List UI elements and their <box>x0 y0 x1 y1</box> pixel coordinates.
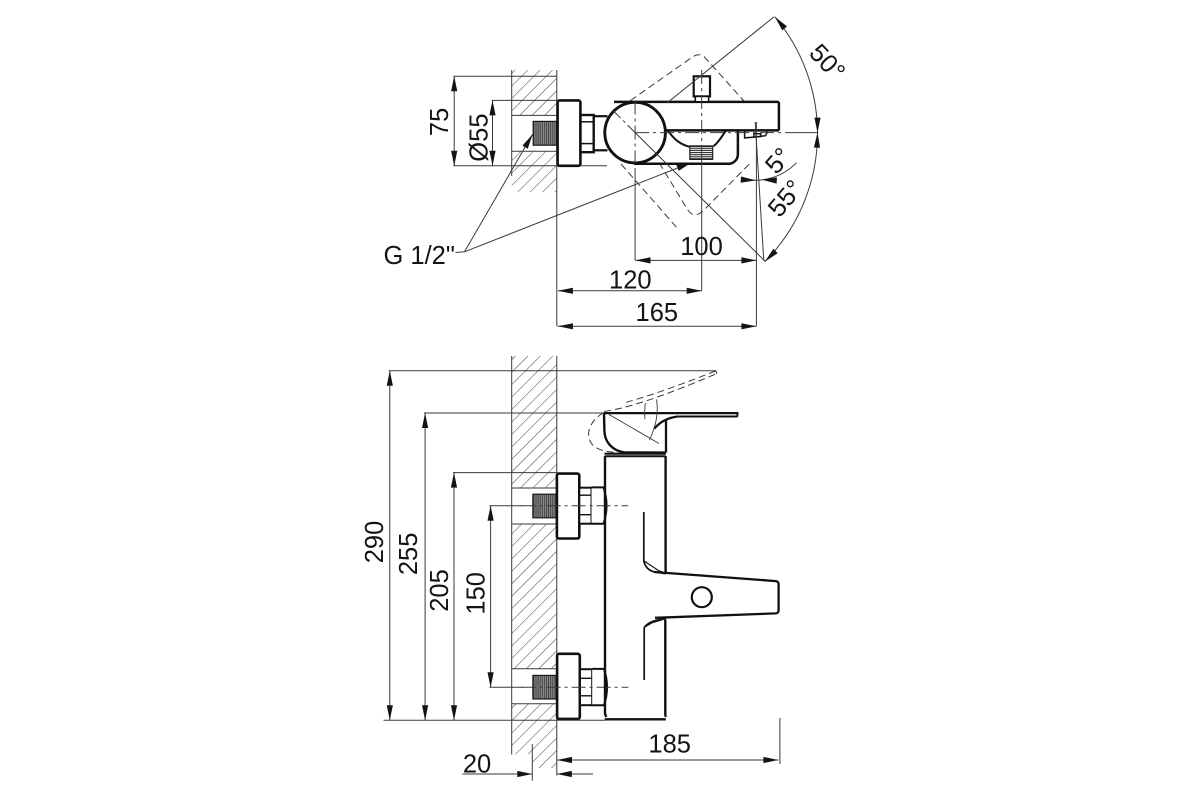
lower body contour (top view) <box>634 131 738 164</box>
cup thread (top view) <box>690 146 713 160</box>
dimension 290 <box>389 371 391 721</box>
dimension 20 <box>462 773 532 775</box>
55 degree arc <box>765 133 818 262</box>
wall hatch upper patch (top view) <box>512 70 557 115</box>
svg-text:150: 150 <box>463 572 491 615</box>
faucet body (bottom view) <box>605 456 666 719</box>
radial line L2 to 55 deg arc end <box>635 133 765 262</box>
50 degree arc <box>775 17 818 133</box>
dimension 100 <box>636 259 757 261</box>
lever bottom edge <box>676 416 737 418</box>
wall hatch patch 4 (bottom view) <box>532 755 557 769</box>
horizontal centerline (top view) <box>635 132 790 134</box>
white mask right of body <box>738 131 796 163</box>
svg-text:205: 205 <box>426 569 454 612</box>
svg-text:75: 75 <box>426 108 454 136</box>
shared bottom extension line (75 and diameter 55) <box>453 165 607 167</box>
diverter knob (top view) <box>694 76 710 96</box>
wall left edge (bottom view) <box>511 356 513 755</box>
wall right edge (bottom view) <box>556 356 558 776</box>
handle outline hidden (dashed rotated rectangle, top view) <box>626 55 773 215</box>
5 deg tilted line <box>755 122 764 261</box>
threaded eccentric (top view) <box>533 121 556 145</box>
spout outline <box>654 572 779 618</box>
lower eccentric thread (bottom view) <box>533 675 556 699</box>
dimension 205 <box>453 473 455 721</box>
wall left edge line (top view) <box>511 70 513 176</box>
wall flange escutcheon (top view) <box>558 100 581 165</box>
lever underside S-curve <box>654 417 677 429</box>
wall hatch patch 2 (bottom view) <box>512 524 557 669</box>
wall hole boundaries (bottom view) <box>512 488 557 704</box>
handle cap (bottom view) <box>604 413 666 452</box>
baseline extension (bottom) <box>384 719 606 721</box>
upper flange (bottom view) <box>557 474 579 539</box>
leader G 1/2 <box>456 251 465 254</box>
upper connection centerline <box>522 505 628 507</box>
knob vertical centerline <box>701 70 703 160</box>
vertical centerline through circle <box>634 101 636 169</box>
dimension 150 <box>490 506 492 688</box>
wall hole bottom boundary (top view) <box>512 150 557 152</box>
dimension 255 <box>424 413 426 720</box>
lower body white fill (top view) <box>634 130 738 163</box>
svg-text:290: 290 <box>361 521 389 564</box>
spout bar white body (top view) <box>614 102 779 130</box>
upper eccentric thread (bottom view) <box>533 494 556 518</box>
flange top extension line (diameter 55) <box>492 99 581 101</box>
45 degree centerline segment in circle <box>614 111 636 133</box>
svg-text:185: 185 <box>648 731 691 759</box>
svg-text:255: 255 <box>395 533 423 576</box>
wall hole top boundary (top view) <box>512 114 557 116</box>
5 deg arc <box>741 163 796 181</box>
rotated cap thin edges <box>609 415 659 444</box>
lever tip <box>736 412 739 417</box>
extension line 290 <box>389 370 717 372</box>
dimension 75 line <box>453 76 455 166</box>
wall hatch patch 1 (bottom view) <box>512 356 557 488</box>
svg-text:100: 100 <box>680 233 723 261</box>
second hidden handle edge (dashed) <box>621 164 678 229</box>
extension line 150 bottom <box>490 686 524 688</box>
radial line L1 (50 deg) <box>667 17 774 103</box>
lower collar and nut (bottom view) <box>580 669 607 705</box>
wall hatch lower patch (top view) <box>512 151 557 192</box>
spout lower wedge <box>644 618 666 627</box>
extension line 75 top <box>453 75 557 77</box>
extension line 150 top <box>490 505 524 507</box>
svg-text:G 1/2": G 1/2" <box>384 242 455 270</box>
svg-text:120: 120 <box>609 266 652 294</box>
svg-text:165: 165 <box>636 299 679 327</box>
svg-text:Ø55: Ø55 <box>465 113 493 161</box>
spout inner edge upper <box>644 512 666 574</box>
cap right edge <box>665 421 667 453</box>
mixer body circle (top view) <box>605 102 666 163</box>
knob centerline extension to 120 dim <box>701 160 703 291</box>
upper collar and nut (bottom view) <box>579 487 606 523</box>
aerator nozzle (top view) <box>745 131 767 138</box>
spout inner edge lower <box>643 627 645 680</box>
body top seam <box>605 453 666 455</box>
wall hatch patch 3 (bottom view) <box>512 704 557 755</box>
wall right edge / extension line (top view) <box>556 70 558 326</box>
collar and nut (top view) <box>581 115 608 152</box>
spout bar outline (top view) <box>614 102 779 130</box>
dimension 185 <box>557 759 778 761</box>
dimension 165 <box>558 325 757 327</box>
extension line 255 <box>424 412 739 414</box>
svg-text:20: 20 <box>463 751 491 779</box>
handle lever top edge (bottom view) <box>604 412 737 414</box>
5 deg reference vertical line <box>755 122 757 326</box>
shower-hose cup (top view) <box>668 131 689 147</box>
lower flange (bottom view) <box>557 654 580 719</box>
dimension 120 <box>558 290 702 292</box>
handle hidden position (dashed lever) <box>589 371 717 452</box>
extension line 205 <box>453 472 558 474</box>
spout circle <box>692 587 712 607</box>
dimension diameter 55 line <box>492 100 494 165</box>
lower connection centerline <box>522 686 629 688</box>
